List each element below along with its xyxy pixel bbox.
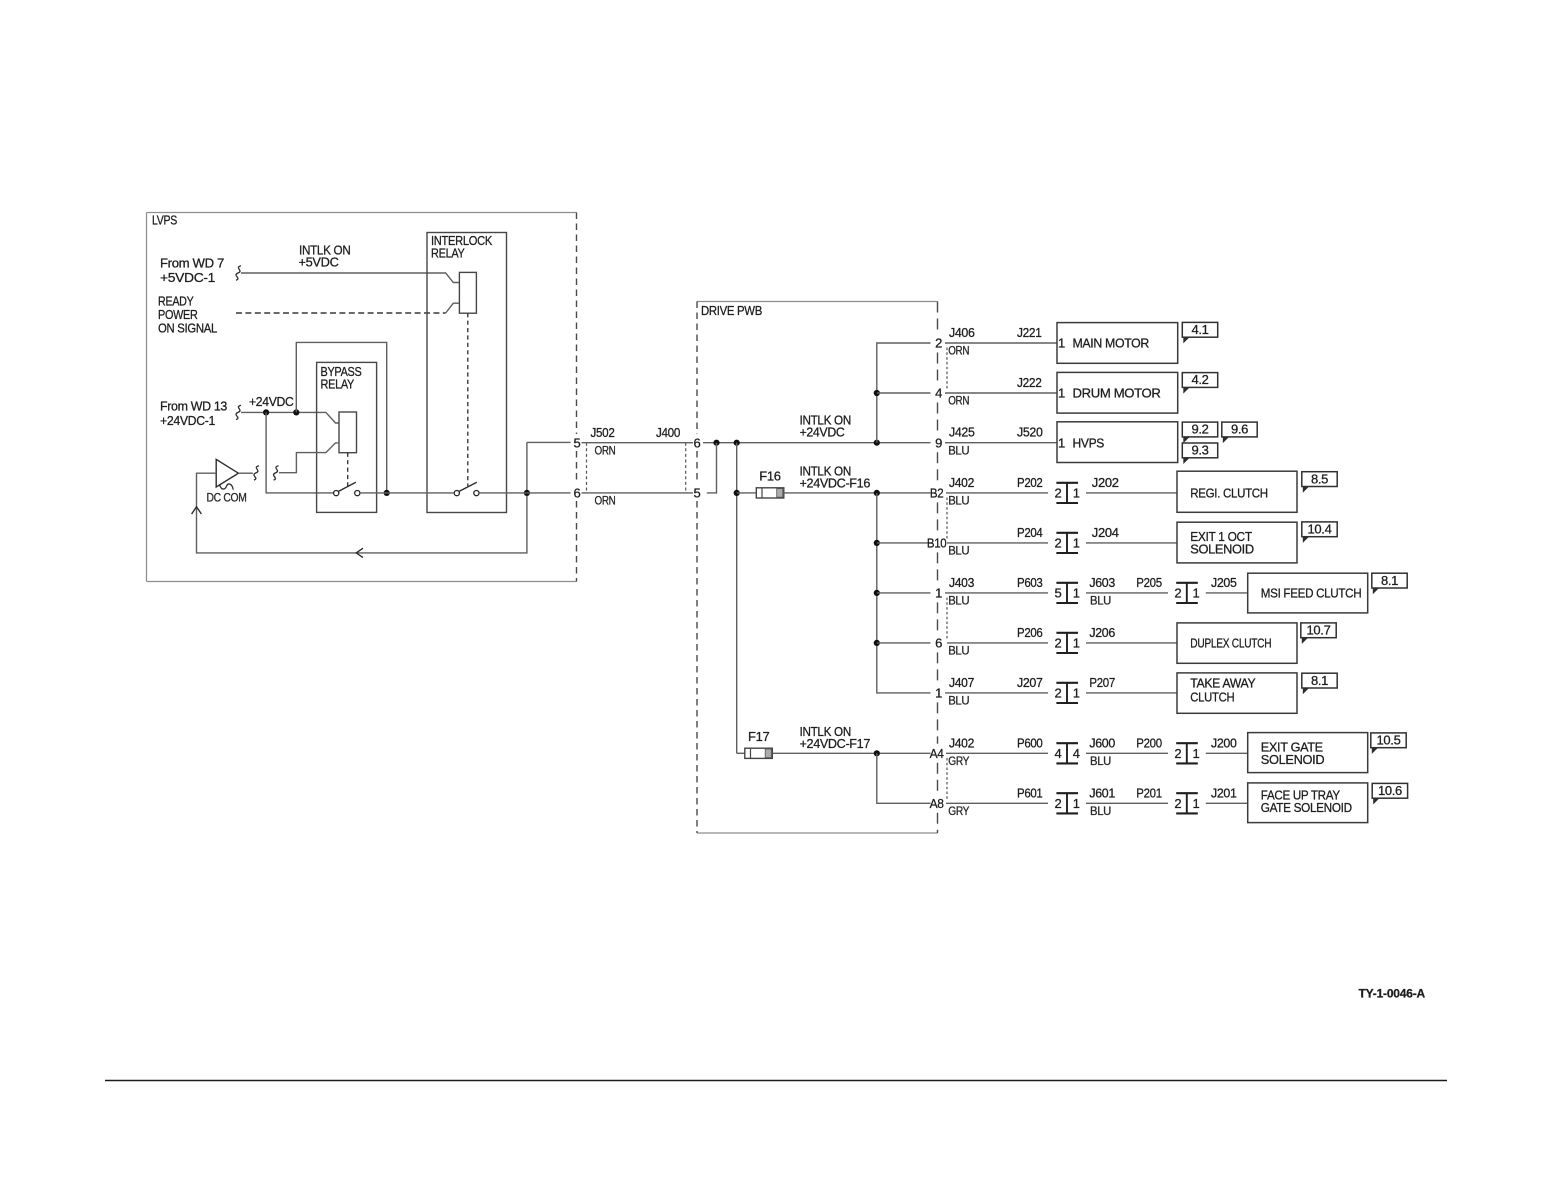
svg-text:J201: J201	[1211, 785, 1237, 800]
svg-text:CLUTCH: CLUTCH	[1190, 689, 1234, 704]
label J407	[949, 675, 974, 690]
label From WD 7 +5VDC-1	[160, 256, 224, 286]
svg-text:2: 2	[1055, 486, 1062, 501]
svg-text:BLU: BLU	[948, 496, 969, 508]
svg-text:1: 1	[1193, 746, 1200, 761]
label F17	[748, 729, 769, 744]
callout 9.2	[1182, 422, 1217, 443]
svg-text:J402: J402	[949, 475, 974, 490]
label INTLK ON +5VDC	[299, 242, 351, 269]
LVPS power supply enclosure	[147, 213, 577, 582]
label BLU (take away wire)	[948, 696, 969, 708]
callout 8.5	[1302, 471, 1337, 492]
svg-text:RELAY: RELAY	[431, 246, 465, 261]
fuse F17	[745, 748, 773, 758]
svg-text:1: 1	[1058, 336, 1065, 351]
svg-text:SOLENOID: SOLENOID	[1190, 542, 1254, 557]
label P201	[1136, 785, 1162, 800]
svg-text:J402: J402	[949, 735, 974, 750]
DRIVE PWB right edge (connector face)	[937, 302, 939, 834]
label J207	[1017, 675, 1043, 690]
svg-text:+24VDC-F17: +24VDC-F17	[800, 736, 871, 751]
svg-text:J600: J600	[1089, 735, 1115, 750]
label BLU (exit gate wire 2)	[1090, 756, 1111, 768]
svg-text:1: 1	[1058, 386, 1065, 401]
svg-text:LVPS: LVPS	[152, 213, 178, 228]
callout 4.1	[1182, 322, 1217, 343]
pin 9 (J425)	[935, 435, 942, 450]
component DUPLEX CLUTCH	[1177, 623, 1297, 663]
junction bus / pin5 jumper	[713, 440, 719, 446]
connector J402 bracket (pins A4-A8)	[946, 758, 948, 799]
svg-text:GATE SOLENOID: GATE SOLENOID	[1261, 800, 1352, 815]
svg-text:6: 6	[935, 636, 942, 651]
junction contact row / J502 leg	[524, 490, 530, 496]
svg-text:1: 1	[1073, 636, 1080, 651]
junction F17 feeder / F16 row	[734, 490, 740, 496]
label BYPASS RELAY	[321, 364, 363, 392]
wire motor branch riser	[877, 343, 931, 443]
svg-text:+5VDC-1: +5VDC-1	[160, 270, 215, 285]
label J205	[1211, 575, 1237, 590]
svg-text:J601: J601	[1089, 785, 1115, 800]
svg-text:From WD 13: From WD 13	[160, 399, 227, 414]
component DRUM MOTOR	[1057, 372, 1178, 413]
svg-text:ORN: ORN	[948, 396, 969, 408]
connector J403 bracket (pins 1-6)	[946, 598, 948, 639]
junction bus / F17 feeder	[734, 440, 740, 446]
svg-text:TY-1-0046-A: TY-1-0046-A	[1359, 987, 1426, 1001]
label J425	[949, 425, 975, 440]
svg-text:5: 5	[694, 485, 701, 500]
svg-text:J204: J204	[1092, 525, 1119, 540]
svg-text:A4: A4	[930, 746, 944, 761]
svg-text:BLU: BLU	[1090, 806, 1111, 818]
wire-break squiggle on +24VDC feed	[236, 405, 241, 419]
svg-text:10.5: 10.5	[1377, 733, 1401, 748]
label J603	[1089, 575, 1115, 590]
connector P206/J206 pins 2-1	[1055, 633, 1080, 653]
label ORN (drum motor wire)	[948, 396, 969, 408]
connector P205/J205 pins 2-1	[1174, 583, 1199, 603]
svg-text:DRUM MOTOR: DRUM MOTOR	[1073, 386, 1161, 401]
svg-text:2: 2	[1055, 636, 1062, 651]
callout 8.1 (take away)	[1302, 673, 1337, 694]
figure number TY-1-0046-A	[1359, 987, 1426, 1001]
wire J502 pin 5 stub	[527, 441, 571, 443]
svg-text:9.6: 9.6	[1231, 422, 1248, 437]
label GRY (exit gate wire 1)	[948, 756, 970, 768]
callout 10.6	[1372, 783, 1407, 804]
wire bypass loop around relay	[296, 342, 386, 493]
callout 10.5	[1371, 733, 1406, 754]
wire-break squiggle pair at DC COM	[254, 466, 279, 480]
svg-text:BLU: BLU	[948, 596, 969, 608]
connector P603/J603 pins 5-1	[1055, 583, 1080, 603]
svg-text:2: 2	[1055, 536, 1062, 551]
pin 1 (J403)	[935, 586, 942, 601]
component MSI FEED CLUTCH	[1248, 573, 1368, 613]
label F16	[759, 469, 780, 484]
label J502	[591, 425, 615, 440]
connector P204/J204 pins 2-1	[1055, 533, 1080, 553]
wire J502-5 to J400-6	[582, 442, 694, 444]
component FACE UP TRAY GATE SOLENOID	[1248, 783, 1368, 823]
svg-text:DRIVE PWB: DRIVE PWB	[701, 303, 762, 318]
bypass relay coil	[339, 412, 357, 453]
wire F17 feeder drop	[736, 443, 738, 754]
current arrow up on DC COM leg	[192, 507, 202, 514]
svg-text:RELAY: RELAY	[321, 377, 355, 392]
pin 5 label (J400)	[694, 485, 701, 500]
svg-text:ORN: ORN	[595, 496, 616, 508]
svg-text:J222: J222	[1017, 375, 1042, 390]
wire J402-A8 to connector	[946, 802, 1048, 804]
label P202	[1017, 475, 1043, 490]
svg-text:REGI. CLUTCH: REGI. CLUTCH	[1190, 485, 1268, 500]
label INTLK ON +24VDC-F17	[800, 724, 871, 751]
label J600	[1089, 735, 1115, 750]
label INTLK ON +24VDC	[800, 413, 852, 440]
label BLU (msi wire 2)	[1090, 596, 1111, 608]
label DRIVE PWB	[701, 303, 762, 318]
svg-text:P207: P207	[1089, 675, 1115, 690]
svg-text:1: 1	[1193, 796, 1200, 811]
label +24VDC node	[249, 394, 294, 409]
svg-text:GRY: GRY	[948, 756, 970, 768]
wire buffer output	[238, 472, 253, 474]
svg-text:P601: P601	[1017, 785, 1043, 800]
label J520	[1017, 425, 1043, 440]
footer rule	[105, 1080, 1447, 1082]
label P601	[1017, 785, 1043, 800]
svg-text:From WD 7: From WD 7	[160, 256, 224, 271]
svg-text:GRY: GRY	[948, 806, 970, 818]
svg-text:BLU: BLU	[948, 445, 969, 457]
svg-text:BLU: BLU	[948, 546, 969, 558]
label BLU (face up wire 2)	[1090, 806, 1111, 818]
svg-text:5: 5	[1055, 586, 1062, 601]
label J402 (B2)	[949, 475, 974, 490]
wire J402-B2 to connector	[946, 492, 1048, 494]
label BLU (hvps wire)	[948, 445, 969, 457]
svg-text:+24VDC-F16: +24VDC-F16	[800, 475, 871, 490]
svg-text:5: 5	[574, 435, 581, 450]
svg-text:1: 1	[1073, 796, 1080, 811]
label J204	[1092, 525, 1119, 540]
svg-text:4.2: 4.2	[1191, 372, 1208, 387]
wire J402-B10 to connector	[947, 542, 1048, 544]
wire bypass contact to interlock contact	[360, 492, 454, 494]
DRIVE PWB enclosure	[697, 302, 938, 834]
label J601	[1089, 785, 1115, 800]
label P206	[1017, 625, 1043, 640]
svg-text:10.4: 10.4	[1308, 522, 1332, 537]
svg-text:1: 1	[1073, 536, 1080, 551]
connector P200/J200 pins 2-1	[1174, 743, 1199, 763]
svg-text:P202: P202	[1017, 475, 1043, 490]
label From WD 13 +24VDC-1	[160, 399, 227, 429]
svg-text:J207: J207	[1017, 675, 1043, 690]
svg-text:J400: J400	[656, 425, 680, 440]
wire-break squiggle on +5VDC feed	[236, 266, 241, 280]
wire J402-A4 to connector	[946, 752, 1048, 754]
label P600	[1017, 735, 1043, 750]
wire P207 to TAKE AWAY CLUTCH	[1086, 692, 1177, 694]
svg-text:P600: P600	[1017, 735, 1043, 750]
svg-text:J221: J221	[1017, 325, 1042, 340]
component EXIT 1 OCT SOLENOID	[1177, 522, 1297, 563]
junction bypass loop / contact row	[384, 490, 390, 496]
svg-text:MAIN MOTOR: MAIN MOTOR	[1073, 336, 1150, 351]
label P204	[1017, 525, 1043, 540]
label ORN (pin5 wire)	[595, 445, 616, 457]
wire interlock contact to LVPS pin 6	[479, 492, 571, 494]
svg-text:F16: F16	[759, 469, 780, 484]
junction bus / motor branch	[874, 440, 880, 446]
svg-text:8.1: 8.1	[1381, 573, 1398, 588]
label INTERLOCK RELAY	[431, 233, 493, 261]
wire INTLK ON +24VDC bus	[703, 442, 931, 444]
fuse F16	[756, 488, 784, 498]
wire J204 to EXIT 1 OCT SOLENOID	[1086, 542, 1177, 544]
svg-text:1: 1	[935, 586, 942, 601]
svg-text:1: 1	[1058, 435, 1065, 450]
pin 4 (J406)	[935, 386, 942, 401]
wire J403-6 to connector	[947, 642, 1048, 644]
svg-text:MSI FEED CLUTCH: MSI FEED CLUTCH	[1261, 585, 1362, 600]
svg-text:2: 2	[935, 336, 942, 351]
svg-text:F17: F17	[748, 729, 769, 744]
svg-text:+24VDC-1: +24VDC-1	[160, 413, 215, 428]
svg-text:+5VDC: +5VDC	[299, 254, 339, 269]
svg-text:P205: P205	[1136, 575, 1162, 590]
label P200	[1136, 735, 1162, 750]
wire J600 to P200 connector	[1086, 752, 1168, 754]
label GRY (face up wire 1)	[948, 806, 970, 818]
wire buffer input to DC COM return	[197, 442, 527, 553]
svg-text:J407: J407	[949, 675, 974, 690]
label LVPS	[152, 213, 178, 228]
wire F17 row feed	[737, 752, 745, 754]
wire clutch branch drop	[877, 493, 931, 693]
svg-text:ON SIGNAL: ON SIGNAL	[158, 321, 217, 336]
label J403	[949, 575, 974, 590]
label J222	[1017, 375, 1042, 390]
bypass relay contact (switch)	[334, 482, 360, 496]
svg-text:J502: J502	[591, 425, 615, 440]
pin 1 (J407)	[935, 686, 942, 701]
svg-text:2: 2	[1174, 586, 1181, 601]
svg-text:J520: J520	[1017, 425, 1043, 440]
label P207	[1089, 675, 1115, 690]
component HVPS	[1057, 422, 1178, 463]
pin B2 (J402)	[930, 486, 944, 501]
wire J403-1 to connector	[945, 592, 1048, 594]
svg-text:J202: J202	[1092, 475, 1119, 490]
connector J207/P207 pins 2-1	[1055, 683, 1080, 703]
label J221	[1017, 325, 1042, 340]
svg-text:1: 1	[1073, 586, 1080, 601]
svg-text:8.1: 8.1	[1311, 673, 1328, 688]
label J202	[1092, 475, 1119, 490]
junction clutch branch / J403-6 row	[874, 640, 880, 646]
svg-text:P204: P204	[1017, 525, 1043, 540]
callout 10.4	[1302, 522, 1337, 543]
connector J402 bracket (pins B2-B10)	[946, 498, 948, 539]
interlock relay actuator link (dashed)	[467, 313, 469, 486]
label J200	[1211, 735, 1237, 750]
callout 10.7	[1301, 623, 1336, 644]
label J406	[949, 325, 975, 340]
svg-text:9: 9	[935, 435, 942, 450]
wire J202 to REGI CLUTCH	[1086, 492, 1177, 494]
svg-text:DUPLEX CLUTCH: DUPLEX CLUTCH	[1190, 635, 1271, 650]
svg-text:1: 1	[1193, 586, 1200, 601]
svg-text:4.1: 4.1	[1191, 322, 1208, 337]
svg-text:+24VDC: +24VDC	[800, 425, 845, 440]
svg-text:8.5: 8.5	[1311, 471, 1328, 486]
wire J403-1 branch	[877, 592, 931, 594]
wire J205 to MSI FEED CLUTCH	[1206, 592, 1248, 594]
svg-text:P603: P603	[1017, 575, 1043, 590]
svg-text:J205: J205	[1211, 575, 1237, 590]
junction F17 bus / A8 branch	[874, 750, 880, 756]
label P205	[1136, 575, 1162, 590]
svg-text:2: 2	[1055, 796, 1062, 811]
wire J206 to DUPLEX CLUTCH	[1086, 642, 1177, 644]
wire READY POWER ON SIGNAL (dashed) to interlock relay coil	[236, 303, 459, 313]
label DC COM	[207, 492, 247, 504]
svg-text:J425: J425	[949, 425, 975, 440]
svg-text:J406: J406	[949, 325, 975, 340]
label J400	[656, 425, 680, 440]
svg-text:BLU: BLU	[1090, 596, 1111, 608]
svg-text:BLU: BLU	[948, 696, 969, 708]
wire +5VDC-1 to interlock relay coil	[241, 273, 459, 283]
svg-text:6: 6	[574, 485, 581, 500]
svg-text:B10: B10	[927, 536, 947, 551]
svg-text:1: 1	[935, 686, 942, 701]
svg-text:J200: J200	[1211, 735, 1237, 750]
label J402 (A4)	[949, 735, 974, 750]
label BLU (duplex wire)	[948, 646, 969, 658]
svg-text:P206: P206	[1017, 625, 1043, 640]
label ORN (main motor wire)	[948, 346, 969, 358]
pin 2 (J406)	[935, 336, 942, 351]
svg-text:DC COM: DC COM	[207, 492, 247, 504]
junction F16 bus / clutch branch	[874, 490, 880, 496]
bypass relay actuator link (dashed)	[347, 453, 349, 486]
component EXIT GATE SOLENOID	[1248, 733, 1368, 773]
junction +24VDC / down-branch	[263, 409, 269, 415]
buffer amplifier DC COM	[216, 459, 238, 489]
connector J406 bracket (pins 2-4)	[946, 348, 948, 389]
svg-text:P200: P200	[1136, 735, 1162, 750]
label P603	[1017, 575, 1043, 590]
svg-text:P201: P201	[1136, 785, 1162, 800]
svg-text:ORN: ORN	[595, 445, 616, 457]
label BLU (regi clutch wire)	[948, 496, 969, 508]
label J206	[1089, 625, 1115, 640]
current arrow left on return wire	[356, 548, 363, 557]
svg-text:10.7: 10.7	[1307, 623, 1331, 638]
wire J603 to P205 connector	[1086, 592, 1168, 594]
svg-text:4: 4	[1055, 746, 1062, 761]
svg-text:1: 1	[1073, 686, 1080, 701]
component REGI. CLUTCH	[1177, 471, 1297, 512]
svg-text:BLU: BLU	[1090, 756, 1111, 768]
wire J403-6 branch	[877, 642, 931, 644]
relay K2 BYPASS RELAY enclosure	[317, 362, 377, 512]
svg-text:J206: J206	[1089, 625, 1115, 640]
wire J601 to P201 connector	[1086, 802, 1168, 804]
component MAIN MOTOR	[1057, 323, 1178, 364]
connector P201/J201 pins 2-1	[1174, 793, 1199, 813]
junction clutch branch / B10 row	[874, 540, 880, 546]
svg-text:9.3: 9.3	[1191, 443, 1208, 458]
pin 6 (J403)	[935, 636, 942, 651]
wire J200 to EXIT GATE SOLENOID	[1206, 752, 1248, 754]
pin 5 label (J502)	[574, 435, 581, 450]
wire bypass coil bottom to DC COM buffer	[279, 443, 339, 473]
svg-text:SOLENOID: SOLENOID	[1261, 752, 1325, 767]
svg-text:2: 2	[1174, 796, 1181, 811]
wire J502-6 to J400-5	[582, 492, 694, 494]
wire J425-9 to J520-1	[945, 442, 1057, 444]
connector P600/J600 pins 4-4	[1055, 743, 1080, 763]
callout 8.1 (msi)	[1372, 573, 1407, 594]
svg-text:BLU: BLU	[948, 646, 969, 658]
callout 4.2	[1182, 372, 1217, 393]
wire J406-4 to J222-1	[945, 392, 1057, 394]
interlock relay contact (switch)	[454, 482, 479, 496]
callout 9.3	[1182, 443, 1217, 464]
label J201	[1211, 785, 1237, 800]
jumper pin6 to pin5	[707, 443, 717, 493]
wire J406-2 to J221-1	[945, 342, 1057, 344]
pin 6 label (J502)	[574, 485, 581, 500]
svg-text:ORN: ORN	[948, 346, 969, 358]
wire J407-1 to connector	[945, 692, 1048, 694]
label BLU (exit1 solenoid wire)	[948, 546, 969, 558]
label READY POWER ON SIGNAL	[158, 294, 217, 336]
svg-text:J603: J603	[1089, 575, 1115, 590]
svg-text:2: 2	[1174, 746, 1181, 761]
svg-text:B2: B2	[930, 486, 944, 501]
svg-text:1: 1	[1073, 486, 1080, 501]
wire B10 branch	[877, 542, 931, 544]
wire drum motor branch	[877, 392, 931, 394]
wire +24VDC to bypass relay coil top	[241, 412, 339, 423]
junction +24VDC / bypass loop	[293, 409, 299, 415]
svg-text:6: 6	[694, 435, 701, 450]
pin 6 label (J400)	[694, 435, 701, 450]
interlock relay coil	[459, 272, 476, 313]
label BLU (msi wire 1)	[948, 596, 969, 608]
svg-text:+24VDC: +24VDC	[249, 394, 294, 409]
wire A8 branch	[877, 753, 931, 803]
pin B10 (J402)	[927, 536, 947, 551]
connector P601/J601 pins 2-1	[1055, 793, 1080, 813]
svg-text:10.6: 10.6	[1378, 783, 1402, 798]
svg-text:A8: A8	[930, 796, 944, 811]
relay K1 INTERLOCK RELAY enclosure	[427, 233, 507, 513]
wire F16 to pin B2	[784, 492, 931, 494]
wire F16 row feed	[737, 492, 757, 494]
pin A8 (J402)	[930, 796, 944, 811]
svg-text:J403: J403	[949, 575, 974, 590]
